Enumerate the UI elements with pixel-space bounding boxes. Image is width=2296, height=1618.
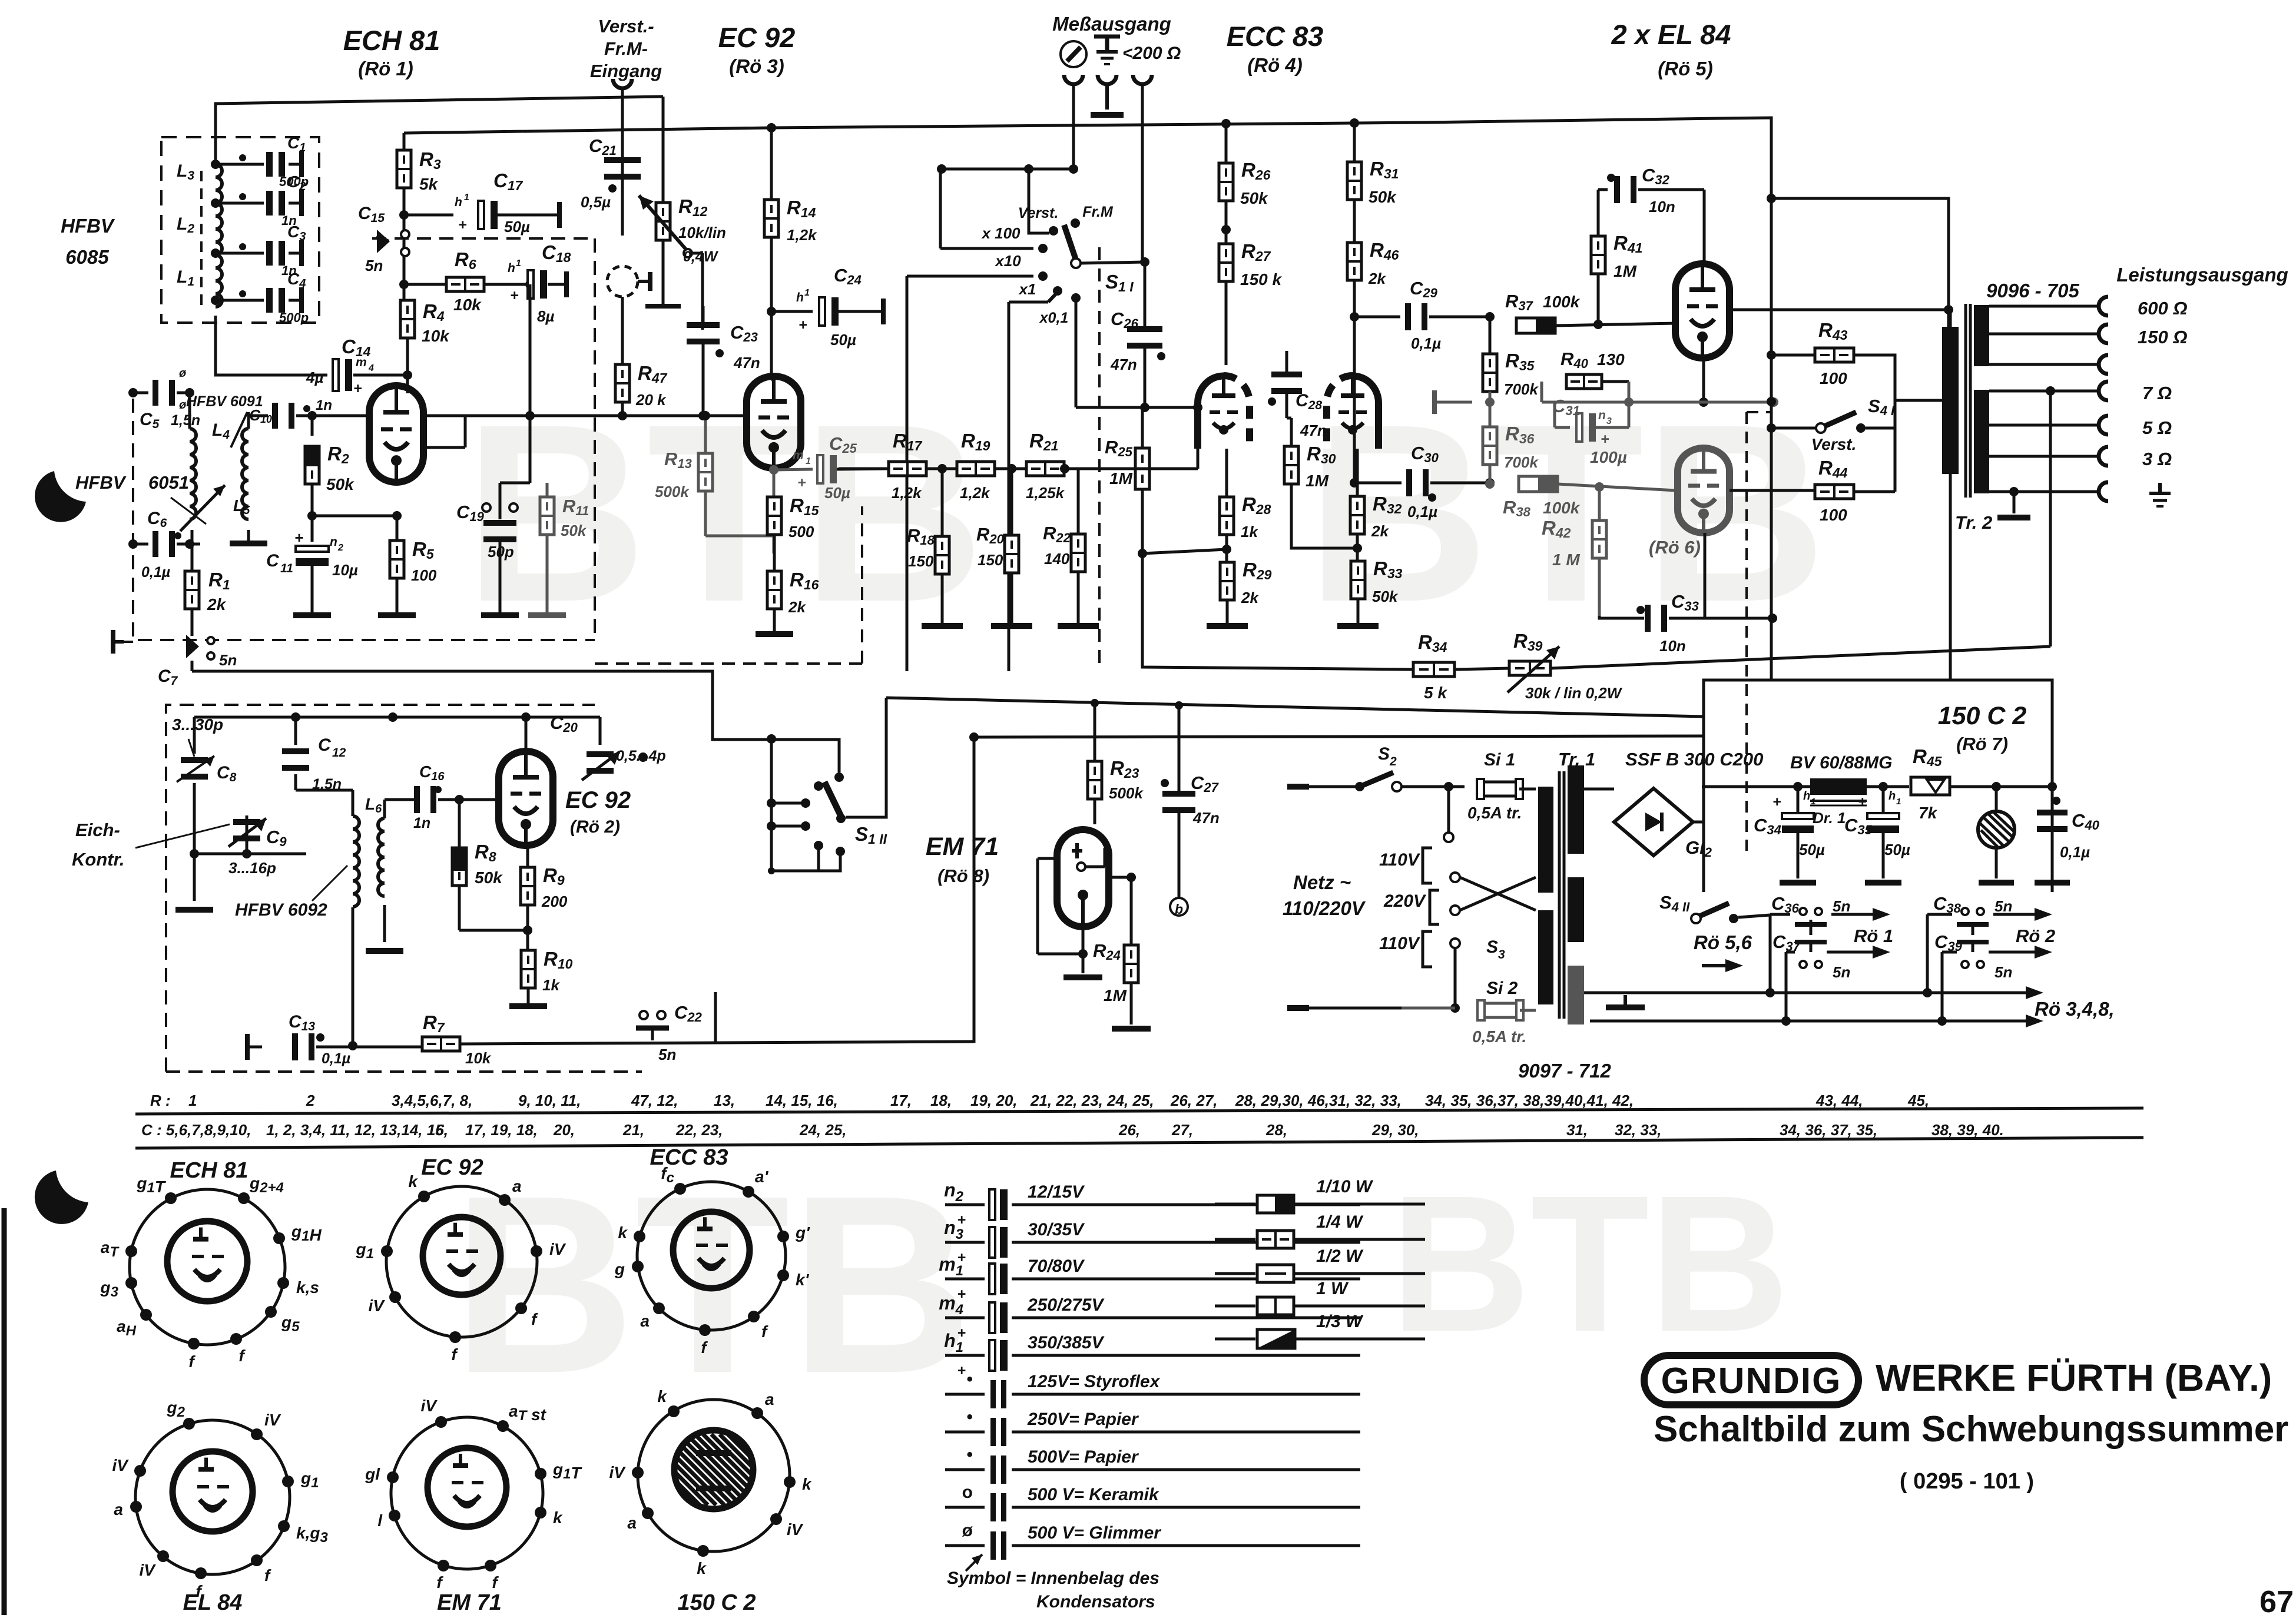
svg-text:1k: 1k [542,976,560,994]
wire Rö5 top bus [0,0,1,1]
pinout ECC 83 [614,1164,810,1357]
wire Verst contact left [1029,200,1049,233]
svg-text:Verst.: Verst. [1811,435,1857,453]
svg-text:Netz ~: Netz ~ [1293,871,1351,893]
capacitor C33 [1599,591,1705,655]
wire R38 node R42 [1595,482,1604,520]
svg-text:125V= Styroflex: 125V= Styroflex [1028,1372,1161,1391]
ground stub near C20 [627,752,660,762]
node bus R14 [767,123,776,132]
title ECC 83 (Rö 4) [1227,21,1324,76]
svg-text:14, 15, 16,: 14, 15, 16, [766,1092,838,1109]
resistor R5 [378,516,437,618]
svg-text:13,: 13, [714,1092,735,1109]
resistor R30 [1284,418,1362,553]
potentiometer R12 [639,195,726,330]
wire EM71 right to R24 [1109,873,1136,945]
svg-text:b: b [1175,901,1183,917]
svg-text:5n: 5n [365,257,383,274]
resistor R31 [1347,123,1399,206]
dashed box lower oscillator [166,705,642,1072]
svg-text:a': a' [755,1168,769,1186]
label EM 71 (Rö 8) [926,833,999,886]
wire EM71 cathode [1063,927,1102,980]
tube Rö4a ECC83 left [1198,376,1250,449]
svg-text:+: + [799,317,807,333]
svg-text:110V: 110V [1379,934,1421,953]
svg-text:+: + [510,287,519,304]
capacitor C6 [128,509,200,581]
svg-text:+: + [957,1325,966,1341]
wire C25 to R17 [0,0,1,1]
label Verst.-Fr.M-Eingang [590,16,662,81]
svg-text:100: 100 [1820,369,1847,387]
svg-text:0,1µ: 0,1µ [322,1050,350,1067]
capacitor C23 [687,322,760,372]
svg-text:S: S [1486,937,1498,957]
capacitor C5 [128,367,200,431]
wire Rö6 anode right [1730,489,1817,492]
tube Rö8 EM71 [1057,830,1109,927]
wire C26 bottom rail [1076,403,1202,412]
svg-text:1k: 1k [1241,523,1258,541]
svg-text:EM 71: EM 71 [437,1590,502,1615]
svg-text:29, 30,: 29, 30, [1371,1121,1419,1139]
label S1-II [855,823,887,847]
svg-text:1, 2, 3,4, 11, 12, 13,14, 15,: 1, 2, 3,4, 11, 12, 13,14, 15, [266,1121,448,1139]
wire L6 left bottom [348,907,357,1050]
svg-text:10µ: 10µ [332,561,358,579]
wire bridge output [0,0,1,1]
pinout EL 84 [112,1398,329,1600]
svg-text:1: 1 [1896,797,1901,807]
capacitor C16 [413,762,499,831]
node R28-R29 [1142,535,1231,562]
capacitor C36 [1771,893,1850,935]
tube Rö6 EL84 gray [1678,448,1730,533]
svg-text:10n: 10n [1659,637,1686,655]
terminal Messausgang signal [1133,75,1152,261]
wire choke line [1702,785,1909,788]
svg-text:k: k [618,1224,628,1242]
capacitor C40 [2035,787,2100,886]
wire R27 to anode [1225,281,1228,365]
svg-text:g: g [614,1260,625,1278]
svg-text:20 k: 20 k [635,391,667,409]
resistor R26 [1219,124,1271,207]
wire R2-R5 link [312,511,402,520]
svg-text:h: h [1889,790,1896,803]
svg-text:Kondensators: Kondensators [1036,1592,1155,1612]
svg-text:2k: 2k [1371,522,1389,540]
svg-text:9, 10, 11,: 9, 10, 11, [518,1092,581,1109]
wire R31-R46 [1353,200,1356,243]
title EC 92 (Rö 3) [718,22,796,77]
svg-text:200: 200 [541,893,568,910]
svg-text:18,: 18, [930,1092,952,1109]
inductor L6 [353,795,385,907]
selector crossing wires [1450,873,1536,915]
svg-text:1,5n: 1,5n [171,412,200,429]
resistor R3 [397,133,441,193]
gray cathode rail [1542,382,1778,407]
svg-text:1: 1 [804,288,810,298]
wire sec 5ohm [1989,416,2172,438]
wire top-left feed [216,97,663,165]
voltage selector 110V [1379,848,1432,883]
wire R25 bottom to rail [1141,552,1144,555]
svg-text:10k: 10k [422,327,450,345]
wire R26-R27 [1221,201,1231,244]
label Leistungsausgang [2116,264,2288,286]
wire Rö2 anode up [525,717,528,751]
wire feedback rail [1142,553,1416,669]
svg-text:+: + [458,217,467,233]
margin line [2,1208,7,1615]
resistor R4 [400,300,450,345]
svg-text:67: 67 [2259,1585,2294,1615]
wire Rö1 heater bottom [1786,946,1890,1021]
svg-text:x1: x1 [1018,280,1036,298]
svg-text:ECH 81: ECH 81 [170,1158,248,1183]
wire tube Rö1 anode right [423,411,535,420]
wire R39 right [1550,646,2050,668]
svg-text:5n: 5n [1994,963,2012,981]
wire rail y1255 [0,0,1,1]
resistor R22 [1043,469,1099,629]
wire Rö6 cathode to C33 [1705,533,1777,623]
svg-text:ø: ø [179,367,186,380]
tube Rö5 EL84 [1675,264,1730,358]
label Eich-Kontr [72,820,230,870]
wire HT bus [404,118,1771,402]
wire Rö3 cathode [769,465,778,553]
transformer Tr2 core [1966,304,1970,498]
svg-text:600 Ω: 600 Ω [2138,298,2188,319]
wire primary vertical [1949,310,1952,680]
svg-text:47n: 47n [1192,809,1220,827]
svg-text:500k: 500k [655,483,690,500]
transformer Tr1 secondary [1568,765,1584,1024]
svg-text:2: 2 [337,543,343,553]
svg-text:21, 22, 23, 24, 25,: 21, 22, 23, 24, 25, [1030,1092,1154,1109]
svg-text:17,: 17, [890,1092,912,1109]
svg-text:1/10 W: 1/10 W [1316,1177,1374,1196]
svg-text:+: + [353,380,362,397]
svg-text:(Rö 4): (Rö 4) [1247,54,1303,76]
svg-text:47n: 47n [733,354,760,372]
title pinout EC 92 [421,1155,483,1180]
wire top rail lower box [194,712,551,722]
svg-text:x 100: x 100 [980,224,1021,242]
svg-text:12/15V: 12/15V [1028,1182,1085,1202]
node L3 top [211,160,220,169]
wire S4II out [0,0,1,1]
node R21 out [1060,464,1069,473]
transformer Tr2 primary [1895,327,1959,474]
svg-text:3 Ω: 3 Ω [2142,449,2172,469]
page number 67 [2259,1585,2294,1618]
resistor R38 [1503,476,1676,519]
wire anode top corner [1767,194,1949,327]
resistor R2 [305,416,354,493]
index row C [135,1121,2143,1148]
svg-text:110V: 110V [1379,850,1421,870]
dashed chassis line mid [595,506,862,664]
contact x1 [1018,280,1062,298]
svg-text:1: 1 [516,258,521,268]
svg-text:50k: 50k [475,868,503,887]
dashed S1 separator [1098,247,1101,664]
svg-text:700k: 700k [1504,453,1539,471]
wire tap C2 [216,193,264,203]
node L1 top [211,248,220,258]
svg-text:1/3 W: 1/3 W [1316,1312,1364,1331]
watermark [452,372,1827,1426]
svg-text:R :: R : [150,1092,171,1109]
glow lamp Rö7 [1978,787,2015,886]
inductor L5 arrow [180,485,250,531]
wire L4 top [188,393,191,429]
node C10 R2 [307,411,317,420]
svg-text:+: + [1858,794,1867,810]
wire R3 to R4 [399,188,409,300]
label Schaltbild zum Schwebungssummer [1654,1409,2288,1450]
wire feedback to S4II area [0,0,1,1]
svg-text:GRUNDIG: GRUNDIG [1661,1361,1842,1401]
resistor R36 [1483,402,1539,489]
svg-text:ECH 81: ECH 81 [343,25,440,56]
wire R30 top [1287,417,1291,420]
wire coil bottom to C14 [216,316,321,375]
wire C23 vert [698,306,708,420]
svg-text:1 W: 1 W [1316,1279,1349,1298]
label EC 92 (Rö 2) [565,787,631,837]
contact x100 [980,224,1048,253]
label Netz [1283,871,1366,919]
electrolytic C14 [306,336,407,397]
title pinout ECH 81 [170,1158,248,1183]
svg-text:700k: 700k [1504,380,1539,398]
label Rö 1 [1854,926,1893,946]
resistor R45 VDR [1911,745,2057,822]
svg-text:+: + [294,529,303,546]
svg-text:Tr. 2: Tr. 2 [1955,512,1992,533]
switch S1-II [767,698,1704,874]
wire sec ground [1989,482,2167,520]
svg-text:Eingang: Eingang [590,61,662,81]
svg-text:1M: 1M [1614,262,1637,280]
switch S4-I [1811,396,1895,453]
resistor R23 [1088,699,1144,824]
tube Rö3 EC92 [747,376,801,468]
label L3 [177,161,194,183]
svg-text:10k: 10k [465,1049,492,1067]
svg-text:5n: 5n [658,1046,676,1063]
svg-text:5 k: 5 k [1424,684,1447,702]
arrows Rö 5,6 [1694,931,1752,972]
label HFBV 6085 [61,215,115,268]
node C13 L6 [0,0,1,1]
wire bus rail y1218 [0,0,1,1]
resistor R29 [1207,559,1272,629]
heater rail 1 [1584,986,2043,999]
wire R1 to C7 [191,609,194,636]
svg-text:16,: 16, [427,1121,448,1139]
capacitor C30 [1354,443,1495,520]
svg-text:500 V= Keramik: 500 V= Keramik [1028,1485,1159,1504]
svg-text:C : 5,6,7,8,9,10,: C : 5,6,7,8,9,10, [141,1121,251,1139]
punch hole top [35,471,86,522]
wire top bus drop x1126 [662,97,665,203]
svg-text:100: 100 [1820,506,1847,524]
wire Rö2 heater top [1927,908,2052,993]
node R17-R19 [927,464,956,473]
svg-text:31,: 31, [1566,1121,1588,1139]
svg-text:50µ: 50µ [824,484,850,502]
svg-text:34, 35, 36,37, 38,39,40,41,: 34, 35, 36,37, 38,39,40,41, 42, [1425,1092,1634,1109]
wire R12 bottom [645,240,681,306]
label S1-I [1105,271,1134,294]
svg-text:47n: 47n [1300,422,1327,439]
svg-text:3,4,5,6,7, 8,: 3,4,5,6,7, 8, [392,1092,472,1109]
capacitor C34 [1754,782,1825,886]
svg-text:EC 92: EC 92 [565,787,631,813]
svg-text:Symbol = Innenbelag des: Symbol = Innenbelag des [947,1569,1159,1588]
capacitor C10 [249,397,332,429]
wire meter junction rail [937,164,1078,174]
wire Rö2 heater bottom [1942,946,2052,1021]
svg-text:70/80V: 70/80V [1028,1256,1085,1276]
svg-text:k: k [697,1559,707,1577]
resistor R1 [185,569,230,614]
svg-text:(Rö 8): (Rö 8) [937,866,989,886]
variable capacitor C9 [228,815,287,877]
ground left dashed [113,630,133,654]
wire long rail upper [0,0,1,1]
svg-text:4µ: 4µ [306,369,323,386]
title pinout ECC 83 [650,1145,728,1170]
svg-text:150 C 2: 150 C 2 [1938,702,2027,730]
svg-text:5n: 5n [1994,897,2012,915]
svg-text:2: 2 [306,1092,315,1109]
capacitor C4 [266,270,309,325]
dashed box S4 [1747,412,1772,851]
svg-text:27,: 27, [1171,1121,1193,1139]
svg-text:<200 Ω: <200 Ω [1122,44,1181,63]
svg-text:0,5µ: 0,5µ [581,193,611,211]
svg-text:3...16p: 3...16p [228,859,276,877]
svg-text:( 0295 - 101 ): ( 0295 - 101 ) [1900,1469,2034,1494]
svg-text:30/35V: 30/35V [1028,1220,1085,1239]
svg-text:250/275V: 250/275V [1027,1295,1105,1315]
electrolytic C11 [266,529,358,618]
arrows Rö5,6 [0,0,1,1]
svg-text:HFBV: HFBV [61,215,115,237]
label HFBV 6091 [186,393,263,447]
wire R46 to anode node [1350,280,1359,488]
svg-text:50µ: 50µ [1884,841,1910,858]
svg-text:m: m [356,356,367,369]
svg-text:6051: 6051 [148,472,189,493]
wire bridge to box [1693,821,1704,824]
wire bus to EL84 anodes [0,0,1,1]
svg-text:0,1µ: 0,1µ [2060,843,2090,861]
svg-text:32, 33,: 32, 33, [1615,1121,1662,1139]
capacitor C32 [1598,165,1704,264]
svg-text:7k: 7k [1919,804,1938,822]
transformer Tr1 core [1559,771,1564,1019]
svg-text:1,25k: 1,25k [1026,484,1065,502]
bridge rectifier Gl2 [1584,788,1712,860]
wire feedback from 7ohm [2049,391,2052,646]
wire R9 to R10 [523,905,532,950]
terminal Messausgang ground [1091,75,1124,118]
svg-text:7 Ω: 7 Ω [2142,383,2172,403]
meter symbol [1061,41,1086,67]
svg-text:110/220V: 110/220V [1283,897,1366,919]
wire left rail to EM71 [973,737,976,1043]
svg-text:Rö 1: Rö 1 [1854,926,1893,946]
svg-text:C: C [266,551,280,571]
svg-text:150 C 2: 150 C 2 [677,1590,756,1615]
wire C28 link [0,0,1,1]
capacitor C28 [1268,351,1327,439]
wire x100 drop [940,169,1033,248]
svg-text:6085: 6085 [65,246,109,268]
svg-text:a: a [114,1500,123,1518]
node L1 bottom [211,296,220,305]
svg-text:n: n [330,535,337,549]
wire C10 to tube grid [312,415,370,417]
svg-text:100k: 100k [1543,293,1581,311]
legend Symbol=Innenbelag [947,1554,1159,1612]
wire C27 down join [1178,842,1181,897]
resistor R24 [1093,940,1151,1032]
ground Tr1 [1606,995,1645,1010]
wire C20-S1II link [0,0,1,1]
wire C12 to junction [0,0,1,1]
title ECH 81 (Rö 1) [343,25,440,79]
svg-text:24, 25,: 24, 25, [799,1121,847,1139]
wire C25 row [0,0,1,1]
svg-text:a: a [512,1177,522,1195]
svg-text:iV: iV [421,1397,438,1415]
capacitor C12 [282,717,346,793]
svg-text:h: h [796,291,804,304]
resistor R16 [756,535,819,637]
wire R8 down [459,886,532,935]
svg-text:n: n [1598,409,1606,422]
svg-text:8µ: 8µ [537,307,554,325]
label 9096-705 [1986,280,2079,301]
svg-text:20,: 20, [553,1121,575,1139]
label <200 Ohm [1122,44,1181,63]
svg-text:1 M: 1 M [1552,551,1580,569]
wire sec 7ohm [1989,382,2172,403]
svg-text:100µ: 100µ [1590,448,1627,466]
svg-text:BV 60/88MG: BV 60/88MG [1790,753,1892,772]
resistor R25 [1105,407,1149,558]
svg-text:Kontr.: Kontr. [72,849,125,870]
wire tap1 up [0,0,1,1]
svg-text:4: 4 [368,363,374,373]
svg-text:1M: 1M [1306,472,1329,490]
svg-text:Si 1: Si 1 [1484,750,1515,770]
potentiometer R39 [1508,630,1623,702]
svg-text:12: 12 [332,746,346,760]
transformer Tr1 primary [1538,787,1553,1004]
